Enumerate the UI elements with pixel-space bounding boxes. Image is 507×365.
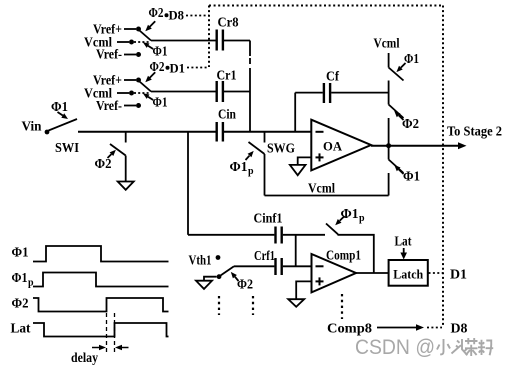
waveform Phi2 bbox=[33, 298, 169, 312]
latch box bbox=[389, 260, 428, 286]
node Vref- dot 2 bbox=[136, 103, 141, 108]
node Vin dot bbox=[45, 130, 50, 135]
arrow Lat to latch bbox=[403, 248, 405, 255]
svg-text:Φ2: Φ2 bbox=[149, 6, 164, 21]
wire output to stage 2 bbox=[371, 145, 462, 147]
arrow to Phi1 blade bbox=[401, 63, 406, 68]
svg-text:Φ2: Φ2 bbox=[237, 278, 253, 293]
svg-text:Vref-: Vref- bbox=[96, 99, 122, 114]
waveform Phi1p bbox=[33, 273, 169, 287]
node Vref+ dot 1 bbox=[136, 27, 141, 32]
svg-text:Φ2: Φ2 bbox=[150, 60, 165, 75]
arrow to blade 2 bbox=[150, 72, 156, 78]
svg-text:Latch: Latch bbox=[393, 267, 424, 282]
wire pole to Cr1 bbox=[151, 91, 216, 93]
node Vth1 dot bbox=[216, 255, 221, 260]
capacitor Cinf1 bbox=[274, 227, 276, 244]
svg-text:Lat: Lat bbox=[11, 322, 31, 337]
dotted bus box left edge bbox=[208, 6, 210, 68]
wire junction Cinf1 to minus input bbox=[295, 235, 297, 266]
svg-text:CSDN @: CSDN @ bbox=[355, 336, 435, 359]
wire stub to output node bbox=[388, 118, 390, 146]
svg-text:Φ1: Φ1 bbox=[341, 207, 359, 222]
switch Phi1 blade bbox=[389, 68, 404, 81]
svg-text:Φ2: Φ2 bbox=[95, 157, 112, 172]
svg-text:SWI: SWI bbox=[55, 141, 79, 156]
wire Vref+ terminal 1 bbox=[124, 28, 136, 30]
wire dotted D1 to bus bbox=[187, 67, 209, 69]
svg-text:Crf1: Crf1 bbox=[254, 249, 275, 264]
dotted bus box right edge bbox=[442, 6, 444, 328]
wire Cf right bbox=[331, 92, 388, 94]
dashed marker line 1 bbox=[106, 313, 108, 352]
svg-text:Φ2: Φ2 bbox=[12, 297, 29, 312]
svg-text:Vcml: Vcml bbox=[374, 37, 400, 52]
node D8 control dot bbox=[165, 13, 169, 17]
svg-text:p: p bbox=[359, 213, 365, 224]
arrow to blade 1 bbox=[150, 21, 156, 27]
wire comparator plus to ground bbox=[296, 281, 311, 299]
dashed marker line 2 bbox=[114, 313, 116, 352]
svg-text:Φ1: Φ1 bbox=[403, 170, 420, 185]
capacitor Cr1 bbox=[215, 81, 217, 102]
wire gnd terminal to ground bbox=[204, 277, 217, 281]
ellipsis dots left bbox=[218, 296, 220, 315]
wire dotted D8 to bus bbox=[186, 15, 209, 17]
svg-text:Lat: Lat bbox=[395, 235, 412, 250]
wire Cr1 to node column bbox=[224, 91, 250, 93]
switch blade group 1 bbox=[140, 31, 152, 41]
arrow to Vth1 blade bbox=[235, 277, 239, 281]
wire Crf1 to comparator bbox=[283, 265, 312, 267]
ground symbol Vth1 switch bbox=[196, 281, 212, 289]
wire comparator output bbox=[356, 272, 389, 274]
node Vcml dot 1 bbox=[129, 40, 134, 45]
switch Phi2 blade right bbox=[389, 105, 404, 119]
wire Cinf1 right bbox=[283, 234, 325, 236]
svg-text:D8: D8 bbox=[451, 322, 468, 337]
wire main line right bbox=[224, 131, 311, 133]
wire Cf left bbox=[295, 92, 323, 94]
capacitor Cr8 bbox=[215, 30, 217, 51]
svg-text:p: p bbox=[248, 166, 254, 177]
delay arrow right bbox=[120, 347, 129, 349]
svg-text:D1: D1 bbox=[450, 268, 467, 283]
switch Phi2 to ground: top stub bbox=[125, 132, 127, 143]
svg-text:D8: D8 bbox=[169, 8, 185, 23]
waveform Phi1 bbox=[33, 246, 169, 262]
node Vref+ dot 2 bbox=[136, 78, 141, 83]
wire stub to vcml rail bbox=[388, 173, 390, 196]
svg-text:Cinf1: Cinf1 bbox=[254, 212, 283, 227]
svg-text:Cf: Cf bbox=[326, 70, 339, 85]
svg-text:SWG: SWG bbox=[267, 142, 295, 157]
wire tap to comparator bank bbox=[187, 132, 189, 235]
svg-text:Φ1: Φ1 bbox=[12, 246, 29, 261]
arrow to SWI blade bbox=[58, 112, 63, 116]
wire pole to Cr8 bbox=[151, 40, 216, 42]
watermark CJK glyphs bbox=[437, 338, 493, 356]
switch blade Vth1/gnd bbox=[221, 266, 235, 275]
ellipsis dots middle bbox=[252, 296, 254, 315]
svg-text:Vin: Vin bbox=[22, 120, 42, 135]
arrow to Phi1 lower blade bbox=[399, 169, 404, 174]
svg-text:D1: D1 bbox=[170, 61, 186, 76]
wire Vcml dotted stub 1 bbox=[134, 41, 149, 43]
svg-text:OA: OA bbox=[323, 139, 343, 154]
switch Phi1 blade lower bbox=[389, 160, 404, 174]
node output dot bbox=[386, 143, 391, 148]
wire Vcml terminal 1 bbox=[117, 41, 129, 43]
arrow to Phi1p blade bbox=[340, 216, 345, 221]
node ground terminal dot bbox=[217, 274, 222, 279]
node Vref- dot 1 bbox=[136, 52, 141, 57]
wire op-amp plus to ground bbox=[298, 157, 312, 165]
svg-text:To Stage 2: To Stage 2 bbox=[447, 125, 502, 140]
svg-text:Φ1: Φ1 bbox=[230, 160, 248, 175]
ground symbol op-amp bbox=[290, 165, 306, 175]
wire vcml bottom rail bbox=[265, 195, 389, 197]
switch SWG top stub bbox=[264, 132, 266, 143]
switch Phi1 below output: top stub bbox=[388, 146, 390, 160]
svg-text:Vth1: Vth1 bbox=[189, 254, 212, 269]
waveform Lat bbox=[33, 323, 169, 337]
arrow Comp8 to D8 bbox=[377, 327, 419, 329]
node D1 control dot bbox=[166, 66, 170, 70]
ground symbol comparator bbox=[288, 299, 304, 307]
op-amp OA bbox=[311, 120, 371, 171]
wire Phi1p switch to comparator output bbox=[338, 235, 374, 273]
node Vcml dot 2 bbox=[129, 91, 134, 96]
svg-text:Φ1: Φ1 bbox=[153, 45, 168, 60]
wire pole to Crf1 bbox=[234, 265, 274, 267]
switch SWI blade bbox=[49, 119, 78, 131]
svg-text:Cr8: Cr8 bbox=[218, 16, 239, 31]
wire summing node column bbox=[249, 41, 251, 57]
ground symbol bbox=[118, 182, 134, 190]
wire Vref- terminal 1 bbox=[124, 54, 136, 56]
arrow to Phi2 blade bbox=[108, 154, 112, 158]
svg-text:Vref-: Vref- bbox=[96, 48, 122, 63]
wire minus node to Cf bbox=[294, 93, 296, 132]
svg-text:Φ1: Φ1 bbox=[12, 271, 28, 286]
capacitor Crf1 bbox=[274, 258, 276, 275]
wire main line left bbox=[78, 131, 216, 133]
wire to ground bbox=[125, 156, 127, 182]
wire Vref+ terminal 2 bbox=[124, 79, 136, 81]
switch Phi1p blade comparator bbox=[326, 224, 338, 235]
svg-text:Φ2: Φ2 bbox=[402, 117, 419, 132]
delay arrow left bbox=[92, 347, 102, 349]
wire dotted to D8 bbox=[427, 327, 442, 329]
svg-text:Vcml: Vcml bbox=[308, 182, 335, 197]
svg-text:Φ1: Φ1 bbox=[404, 52, 419, 67]
wire Vcml terminal 2 bbox=[117, 92, 129, 94]
svg-text:Comp1: Comp1 bbox=[326, 249, 361, 264]
capacitor Cf bbox=[323, 83, 325, 103]
wire SWG to vcml rail bbox=[264, 154, 266, 196]
svg-text:delay: delay bbox=[71, 351, 98, 365]
wire Vref- terminal 2 bbox=[124, 105, 136, 107]
arrow to SWG blade bbox=[246, 156, 250, 160]
switch Phi2 blade bbox=[110, 144, 126, 156]
svg-text:Comp8: Comp8 bbox=[327, 322, 372, 337]
switch blade group 2 bbox=[140, 82, 152, 92]
switch SWG blade bbox=[249, 142, 265, 154]
svg-text:Φ1: Φ1 bbox=[153, 96, 168, 111]
arrow to pole 2 bbox=[148, 97, 153, 100]
svg-text:Cin: Cin bbox=[218, 108, 236, 123]
comparator Comp1 bbox=[312, 254, 357, 292]
wire Vcml dotted stub 2 bbox=[134, 92, 149, 94]
dotted bus box top edge bbox=[209, 5, 443, 7]
wire Cr8 to node column bbox=[224, 40, 250, 42]
wire dotted latch to D1 bbox=[429, 272, 444, 274]
switch Phi1 from Vcml: top stub bbox=[388, 53, 390, 68]
ellipsis dots comparator bbox=[341, 294, 343, 319]
arrow to pole 1 bbox=[148, 46, 153, 49]
wire stub to Cf node bbox=[388, 81, 390, 105]
arrow to Phi2 blade bbox=[399, 115, 404, 120]
svg-text:Cr1: Cr1 bbox=[217, 69, 237, 84]
capacitor Cin bbox=[215, 122, 217, 142]
